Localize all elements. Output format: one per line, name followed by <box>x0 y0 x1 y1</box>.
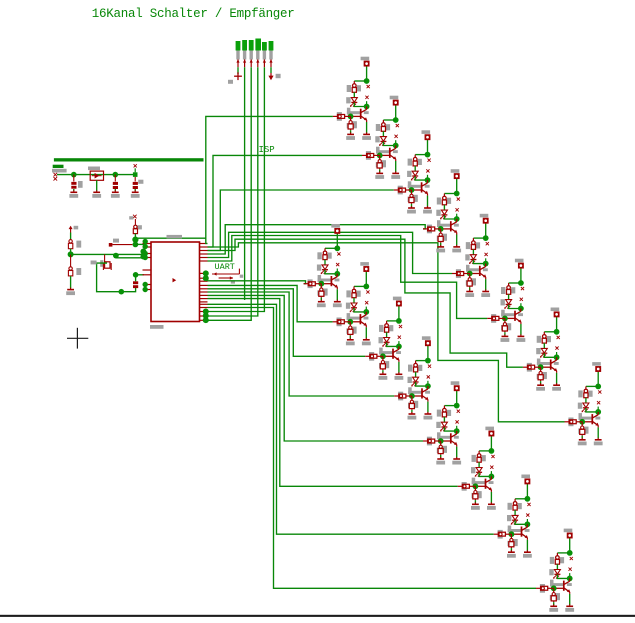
resistor R36 value label <box>443 236 446 239</box>
LED D7 <box>536 348 547 358</box>
wire (pad to node, channel 8) <box>597 371 599 386</box>
node (divider tap) <box>68 251 74 257</box>
connector SV1 pin 2 <box>243 59 246 67</box>
resistor R41 (pull-down) <box>317 284 327 298</box>
wire (channel 13 net) <box>208 295 424 441</box>
wire (pull-down R44 to ground) <box>411 410 413 413</box>
resistor R46 (pull-down) <box>472 486 482 500</box>
ground <box>536 383 545 390</box>
wire (emitter T9 to ground) <box>336 289 338 300</box>
pad PAD12 <box>422 336 431 345</box>
IC U1 right pin 11 <box>200 288 208 290</box>
wire (reset node to IC pin) <box>135 243 144 245</box>
node (collector net, channel 12) <box>425 358 431 364</box>
pin pad (ISP net) <box>203 313 209 319</box>
wire (xtal row) <box>116 257 144 259</box>
ground <box>423 206 432 214</box>
LED D9 <box>317 265 328 275</box>
resistor R45 (pull-down) <box>437 441 447 455</box>
resistor R20 (base) <box>423 225 441 234</box>
wire (LED D7 to collector node) <box>544 353 556 357</box>
pad PAD4 <box>451 169 460 178</box>
transistor T12 <box>408 386 430 402</box>
resistor R4 value label <box>457 198 460 201</box>
wire (pad to node, channel 6) <box>520 268 522 283</box>
pad PAD5 <box>480 214 489 223</box>
wire (LED D10 to collector node) <box>354 308 366 312</box>
wire (R8 to LED D8) <box>585 398 587 403</box>
resistor R28 (base) <box>394 392 412 401</box>
wire (pull-down R38 to ground) <box>504 332 506 335</box>
ground <box>501 334 510 342</box>
wire (collector stub T6) <box>520 303 522 308</box>
resistor R44 (pull-down) <box>408 396 418 410</box>
resistor R10 value label <box>366 290 369 293</box>
node (base, channel 16) <box>551 585 557 591</box>
node (rail junction 2) <box>113 172 119 178</box>
label (AVCC corner) <box>91 261 97 265</box>
transistor T15 name label <box>526 514 529 517</box>
resistor R18 (base) <box>362 151 380 160</box>
ground <box>346 338 355 346</box>
crystal Q1 <box>100 254 111 270</box>
LED D6 <box>501 299 512 309</box>
ground <box>436 457 445 465</box>
node (rail junction 1) <box>71 172 77 178</box>
IC U1 right pin 9 <box>200 280 208 282</box>
node (AVCC) <box>119 289 125 295</box>
IC U1 left pin 8 <box>143 289 152 291</box>
transistor T14 name label <box>490 466 493 469</box>
node (collector junction, channel 12) <box>425 383 431 389</box>
transistor T8 name label <box>597 401 600 404</box>
node (collector net, channel 1) <box>364 78 370 84</box>
wire (pull-down R33 to ground) <box>350 130 352 133</box>
IC U1 left pin 6 <box>143 274 152 276</box>
wire (ISP SCK vertical) <box>208 67 258 316</box>
node (collector net, channel 15) <box>525 496 531 502</box>
resistor R11 value label <box>399 325 402 328</box>
resistor R13 <box>437 406 451 417</box>
transistor T1 name label <box>365 96 368 99</box>
wire (box to ground) <box>96 180 98 191</box>
node (collector junction, channel 5) <box>483 261 489 267</box>
wire (pull-down R47 to ground) <box>510 548 512 551</box>
resistor R6 value label <box>521 287 524 290</box>
node (collector net, channel 5) <box>483 235 489 241</box>
pad PAD11 <box>393 297 402 306</box>
node (collector net, channel 11) <box>396 318 402 324</box>
capacitor C1 <box>71 175 82 189</box>
capacitor C2 <box>113 175 118 189</box>
wire (channel 2 net) <box>208 155 363 247</box>
wire (R2 to LED D2) <box>382 131 384 136</box>
resistor R35 (pull-down) <box>408 190 418 204</box>
resistor R38 (pull-down) <box>501 318 511 332</box>
wire (SV1 pin 1 to VCC) <box>237 67 239 74</box>
wire (node to resistor R15) <box>515 498 527 500</box>
wire (channel 16 net) <box>208 308 537 589</box>
wire (pull-down R35 to ground) <box>411 204 413 207</box>
pad PAD16 <box>564 529 573 538</box>
wire (to IC AVCC pin) <box>136 274 144 276</box>
connector SV1 pad 4 <box>255 39 261 60</box>
LED D14 <box>471 467 482 477</box>
supply wire stub (thick) <box>53 165 64 168</box>
IC U1 right pin 16 <box>200 303 208 305</box>
transistor T11 name label <box>398 336 401 339</box>
ground <box>391 171 400 179</box>
pin pad (green) <box>143 282 148 287</box>
transistor T4 <box>437 219 459 235</box>
wire (C1 to ground) <box>73 189 75 191</box>
wire (LED D6 to collector node) <box>509 305 521 309</box>
resistor R47 (pull-down) <box>508 534 518 548</box>
transistor T13 <box>437 431 459 447</box>
wire (divider tap to IC) <box>71 253 144 255</box>
ground <box>465 290 474 298</box>
diode D17 (series protection box) <box>88 167 104 181</box>
wire (AVCC filter loop) <box>97 263 136 292</box>
resistor R19 (base) <box>394 186 412 195</box>
resistor R27 (base) <box>365 352 383 361</box>
node (collector junction, channel 9) <box>334 271 340 277</box>
wire (node to resistor R5) <box>473 237 485 239</box>
node (base, channel 8) <box>579 419 585 425</box>
wire (collector stub T14) <box>490 471 492 476</box>
transistor T3 <box>408 180 430 196</box>
wire (R10 to LED D10) <box>353 298 355 303</box>
transistor T5 <box>466 264 488 280</box>
IC U1 right pin 8 <box>200 277 208 279</box>
node (base, channel 9) <box>318 281 324 287</box>
wire (ISP MOSI vertical) <box>244 67 246 300</box>
wire (R16 to LED D16) <box>556 564 558 569</box>
wire (node to resistor R14) <box>479 450 491 452</box>
resistor R7 <box>537 332 551 343</box>
wire (LED D1 to collector node) <box>354 103 366 107</box>
resistor R41 value label <box>324 291 327 294</box>
wire (collector stub T1) <box>366 101 368 106</box>
resistor R9 <box>317 248 331 259</box>
node (collector junction, channel 15) <box>525 521 531 527</box>
node (reset pin link) <box>133 242 139 248</box>
wire (emitter T2 to ground) <box>395 161 397 172</box>
wire (SV1 pin 6 to GND arrow) <box>270 67 272 73</box>
node (collector net, channel 14) <box>489 448 495 454</box>
connector SV1 pad 1 <box>236 41 241 60</box>
ground <box>395 372 404 380</box>
resistor R7 value label <box>557 336 560 339</box>
LED D3 <box>407 171 418 181</box>
transistor T13 name label <box>456 420 459 423</box>
wire (pad to node, channel 5) <box>485 223 487 238</box>
wire (emitter T6 to ground) <box>520 324 522 335</box>
wire (LED D11 to collector node) <box>387 343 399 347</box>
connector SV1 pin 1 <box>236 59 239 67</box>
wire (C3 to ground) <box>134 189 136 191</box>
wire (LED D14 to collector node) <box>479 473 491 477</box>
wire (R51 to reset node) <box>134 234 136 240</box>
wire (emitter T13 to ground) <box>456 447 458 458</box>
wire (emitter T7 to ground) <box>556 373 558 384</box>
wire (pull-down R48 to ground) <box>553 602 555 605</box>
wire (collector stub T7) <box>556 352 558 357</box>
transistor T9 <box>318 274 340 290</box>
pin pad (XTAL2) <box>140 254 146 260</box>
wire (C2 to ground) <box>114 189 116 191</box>
node (base, channel 10) <box>347 319 353 325</box>
wire (node to resistor R16) <box>557 552 569 554</box>
IC U1 right pin 14 <box>200 298 208 300</box>
resistor R9 value label <box>337 252 340 255</box>
IC U1 right pin 19 <box>200 315 208 317</box>
wire (LED D12 to collector node) <box>416 382 428 386</box>
wire (node to resistor R7) <box>544 331 556 333</box>
resistor R39 value label <box>543 374 546 377</box>
resistor R14 value label <box>491 455 494 458</box>
wire (pad to node, channel 9) <box>336 233 338 248</box>
wire (R3 to LED D3) <box>414 166 416 171</box>
node (collector net, channel 2) <box>393 117 399 123</box>
wire (emitter T10 to ground) <box>365 327 367 338</box>
ground <box>452 245 461 253</box>
pin pad (ISP net) <box>203 317 209 323</box>
pad PAD7 <box>551 308 560 317</box>
resistor R42 (pull-down) <box>346 322 356 336</box>
wire (channel 6 net) <box>208 236 488 319</box>
wire (emitter T4 to ground) <box>456 235 458 246</box>
ground <box>362 338 371 346</box>
connector SV1 pin 4 <box>256 59 259 67</box>
wire (node to resistor R12) <box>416 360 428 362</box>
IC U1 left pin 7 <box>143 284 152 286</box>
connector SV1 pad 5 <box>262 42 267 60</box>
wire (node to resistor R11) <box>387 320 399 322</box>
wire (collector stub T11) <box>398 341 400 346</box>
wire (emitter T14 to ground) <box>490 492 492 503</box>
wire (C5 top to node) <box>135 277 137 282</box>
node (collector net, channel 9) <box>334 245 340 251</box>
node (collector net, channel 10) <box>363 284 369 290</box>
node (base, channel 2) <box>377 153 383 159</box>
ground <box>565 604 574 612</box>
resistor R39 (pull-down) <box>537 367 547 381</box>
node (base, channel 14) <box>473 483 479 489</box>
wire (collector stub T2) <box>395 140 397 145</box>
wire (pull-down R42 to ground) <box>349 336 351 339</box>
resistor R25 (base) <box>304 279 322 288</box>
power bus wire (thick) <box>54 158 204 161</box>
resistor R29 (base) <box>423 437 441 446</box>
node (base, channel 12) <box>409 393 415 399</box>
wire (channel 7 net) <box>208 239 523 367</box>
connector SV1 pin 3 <box>250 59 253 67</box>
transistor T5 name label <box>485 253 488 256</box>
resistor R37 value label <box>472 280 475 283</box>
wire (pad to node, channel 13) <box>456 390 458 405</box>
IC U1 right pin 10 <box>200 284 208 286</box>
node (collector net, channel 16) <box>567 550 573 556</box>
transistor T8 <box>579 412 601 428</box>
capacitor C5 <box>133 281 138 288</box>
wire (node to resistor R10) <box>354 285 366 287</box>
resistor R1 value label <box>367 85 370 88</box>
wire (R50 to ground) <box>70 276 72 288</box>
LED D16 <box>549 569 560 579</box>
connector SV1 pad 6 <box>269 41 274 60</box>
node (collector net, channel 7) <box>554 329 560 335</box>
LED D13 <box>436 422 447 432</box>
wire (node to resistor R3) <box>415 154 427 156</box>
IC U1 right pin 1 <box>200 243 208 245</box>
ground <box>111 190 120 198</box>
wire (collector stub T9) <box>336 269 338 274</box>
ground <box>362 132 371 140</box>
ground <box>481 290 490 298</box>
wire (collector stub T8) <box>597 407 599 412</box>
wire (node to resistor R8) <box>586 385 598 387</box>
pin pad (green) <box>143 287 148 292</box>
svg-text:UART: UART <box>215 262 235 272</box>
pin pad (TXD) <box>203 275 209 281</box>
ground <box>408 412 417 420</box>
wire (emitter T8 to ground) <box>597 427 599 438</box>
pad PAD6 <box>515 259 524 268</box>
transistor T7 <box>537 357 559 373</box>
IC U1 (ATmega, main controller) <box>150 235 200 329</box>
wire (channel 5 net) <box>208 232 453 273</box>
wire (channel 4 net) <box>208 225 426 254</box>
wire (R12 to LED D12) <box>415 372 417 377</box>
wire (channel 10 net) <box>208 285 333 321</box>
LED D12 <box>408 377 419 387</box>
transistor T9 name label <box>336 263 339 266</box>
wire (LED D13 to collector node) <box>444 427 456 431</box>
wire (collector stub T3) <box>427 175 429 180</box>
node (base, channel 4) <box>438 226 444 232</box>
ground <box>578 438 587 446</box>
node (base, channel 7) <box>538 364 544 370</box>
wire (pad to node, channel 14) <box>490 436 492 451</box>
resistor R49 <box>68 240 81 249</box>
IC U1 right pin 15 <box>200 301 208 303</box>
wire (collector stub T4) <box>456 214 458 219</box>
ground <box>471 502 480 510</box>
transistor T10 <box>347 312 369 328</box>
resistor R22 (base) <box>487 314 505 323</box>
wire (emitter T15 to ground) <box>526 540 528 551</box>
pad PAD9 <box>331 224 340 233</box>
ground <box>375 171 384 179</box>
transistor T6 name label <box>520 298 523 301</box>
IC U1 right pin 6 <box>200 260 208 262</box>
resistor R26 (base) <box>333 318 351 327</box>
transistor T16 <box>550 578 572 594</box>
ground <box>379 372 388 380</box>
resistor R24 (base) <box>565 418 583 427</box>
LED D1 <box>346 97 357 107</box>
node (collector junction, channel 16) <box>567 576 573 582</box>
ground <box>92 190 101 198</box>
IC U1 left pin 2 <box>143 246 152 248</box>
wire (node to resistor R2) <box>383 119 395 121</box>
wire (pull-down R46 to ground) <box>474 500 476 503</box>
wire (pad to node, channel 1) <box>366 66 368 81</box>
resistor R8 <box>578 386 592 397</box>
pad PAD15 <box>521 475 530 484</box>
pin pad (ISP net) <box>203 309 209 315</box>
ground <box>346 132 355 140</box>
wire (pull-down R43 to ground) <box>382 370 384 373</box>
ground arrow (SV1 pin 6) <box>268 73 280 80</box>
transistor T3 name label <box>426 169 429 172</box>
transistor T6 <box>501 309 523 325</box>
transistor T12 name label <box>427 375 430 378</box>
node (collector junction, channel 13) <box>454 428 460 434</box>
node (collector junction, channel 8) <box>595 409 601 415</box>
wire (channel 1 net) <box>206 116 333 243</box>
wire (R15 to LED D15) <box>514 510 516 515</box>
IC U1 left pin 3 <box>143 253 152 255</box>
wire (R7 to LED D7) <box>543 343 545 348</box>
node (base, channel 5) <box>467 271 473 277</box>
resistor R34 value label <box>382 162 385 165</box>
transistor T7 name label <box>555 347 558 350</box>
ground <box>549 604 558 612</box>
transistor T14 <box>472 476 494 492</box>
LED D4 <box>436 210 447 220</box>
resistor R10 <box>346 286 360 297</box>
node (ADC divider junction) <box>113 253 119 259</box>
ground <box>317 300 326 307</box>
wire (R11 to LED D11) <box>386 332 388 337</box>
resistor R15 value label <box>527 503 530 506</box>
wire (channel 11 net) <box>208 289 366 357</box>
wire (channel 14 net) <box>208 299 458 487</box>
resistor R5 value label <box>486 242 489 245</box>
ground <box>517 334 526 342</box>
node (collector junction, channel 3) <box>425 177 431 183</box>
node (collector junction, channel 4) <box>454 216 460 222</box>
svg-text:ISP: ISP <box>259 145 275 155</box>
connector SV1 pin 6 <box>269 59 272 67</box>
wire (node to resistor R9) <box>325 247 337 249</box>
node (base, channel 6) <box>502 316 508 322</box>
connector SV1 pin 5 <box>263 59 266 67</box>
IC U1 left pin 1 <box>143 243 152 245</box>
pad PAD10 <box>360 262 369 271</box>
UART arrow RXD <box>212 269 243 278</box>
UART arrow TXD <box>219 276 235 283</box>
pin pad (green) <box>143 244 148 249</box>
resistor R5 <box>466 238 480 249</box>
LED D8 <box>578 403 589 413</box>
resistor R15 <box>508 499 522 510</box>
node (base, channel 13) <box>438 438 444 444</box>
IC U1 right pin 2 <box>200 246 208 248</box>
supply arrow (divider top) <box>69 226 79 233</box>
resistor R4 <box>437 194 451 205</box>
wire (pull-down R37 to ground) <box>469 287 471 290</box>
node (collector junction, channel 1) <box>364 104 370 110</box>
wire (pad to node, channel 3) <box>427 139 429 154</box>
wire (pad to node, channel 11) <box>398 306 400 321</box>
wire (collector stub T5) <box>485 258 487 263</box>
IC U1 left pin 4 <box>143 257 152 259</box>
ground <box>552 383 561 390</box>
wire (R9 to LED D9) <box>324 260 326 265</box>
